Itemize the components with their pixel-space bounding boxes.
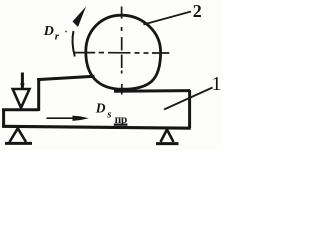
leader line to 2	[144, 12, 192, 25]
stray scan dot near Dr	[65, 31, 67, 33]
support triangle bottom-right (apex up)	[161, 130, 174, 143]
svg-text:D: D	[43, 24, 54, 39]
svg-text:r: r	[55, 31, 60, 43]
left edge	[2, 109, 5, 128]
step top surface (raw, to be ground)	[37, 76, 94, 79]
wheel centerline horizontal (dash-dot)	[75, 52, 170, 54]
svg-text:2: 2	[193, 1, 202, 21]
right edge	[188, 90, 191, 128]
grinding wheel 2 (circle, slightly distorted as in scan)	[86, 15, 161, 89]
support triangle bottom-left (apex up)	[10, 128, 27, 142]
svg-text:s: s	[106, 108, 111, 120]
wheel centerline vertical (dash-dot)	[121, 7, 123, 95]
bottom edge	[2, 126, 191, 128]
leader line to 1	[164, 88, 213, 110]
rotation arrow (curved, solid head)	[72, 31, 74, 57]
top-left surface	[2, 108, 39, 111]
longitudinal feed arrow	[47, 117, 76, 119]
svg-text:1: 1	[212, 73, 222, 95]
ground surface right of wheel	[114, 89, 190, 93]
workpiece 1 outline	[2, 76, 191, 128]
svg-text:D: D	[95, 100, 106, 115]
step vertical edge	[37, 78, 40, 111]
clamp force arrow (down)	[21, 73, 24, 89]
clamp locating triangle (apex down)	[13, 89, 30, 108]
